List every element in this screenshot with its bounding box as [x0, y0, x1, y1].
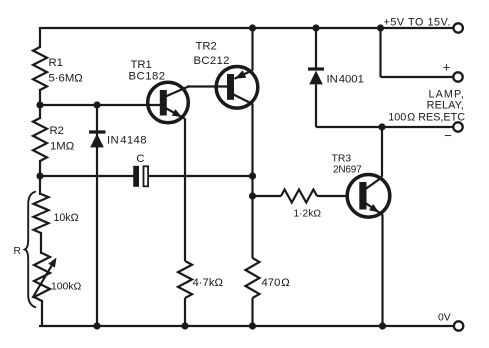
wire node-B horizontal through capacitor C (right): [149, 175, 254, 177]
svg-text:+: +: [443, 60, 451, 75]
wire bottom 0V rail: [39, 325, 454, 327]
wire 1.2k to TR3 base segment: [253, 195, 281, 197]
wire left branch vertical: R1 to R2 (node A): [39, 89, 41, 119]
terminal - load: [453, 122, 462, 131]
resistor R1 5.6M zigzag: [33, 47, 47, 90]
svg-text:4·7kΩ: 4·7kΩ: [193, 277, 223, 289]
svg-text:RELAY,: RELAY,: [427, 100, 464, 112]
wire TR1 emitter to 4.7k vertical: [184, 119, 186, 262]
capacitor C left plate (solid): [133, 166, 139, 187]
svg-text:BC212: BC212: [194, 55, 230, 67]
junction node B (R2 bottom / C / R top): [36, 172, 43, 179]
svg-text:C: C: [136, 153, 144, 165]
variable resistor 100k arrow shaft: [33, 263, 54, 299]
resistor 1.2k zigzag: [281, 190, 317, 203]
resistor R2 1M zigzag: [33, 118, 47, 161]
terminal 0V: [454, 321, 463, 330]
wire top +V rail: [40, 27, 453, 29]
wire TR2 emitter branch to top rail: [251, 28, 253, 71]
svg-text:TR2: TR2: [196, 41, 217, 53]
svg-text:TR3: TR3: [332, 154, 352, 165]
wire node-B horizontal through capacitor C (left): [40, 175, 134, 177]
wire 4.7k bottom to 0V rail: [184, 298, 186, 326]
wire left branch vertical: 10k to 100k: [40, 232, 42, 254]
junction top rail / load plus branch: [377, 24, 384, 31]
transistor TR2 base bar: [227, 74, 234, 100]
capacitor C right plate (hollow): [144, 166, 149, 186]
svg-text:TR1: TR1: [131, 59, 152, 71]
svg-text:1MΩ: 1MΩ: [50, 141, 74, 153]
diode IN4148 anode triangle: [90, 134, 104, 148]
wire TR3 collector vertical up: [381, 127, 383, 177]
diode IN4001 cathode bar: [308, 67, 324, 70]
junction 0V rail / TR3 emitter: [379, 322, 386, 329]
wire TR2 collector branch vertical: [251, 104, 253, 259]
junction 0V rail / 4.7k bottom: [181, 322, 188, 329]
transistor TR2 emitter diagonal: [235, 70, 253, 79]
svg-text:100kΩ: 100kΩ: [51, 282, 82, 293]
junction node A / IN4148 top: [93, 101, 100, 108]
resistor 4.7k zigzag: [178, 261, 192, 298]
transistor TR1 collector diagonal: [166, 87, 189, 97]
resistor 470R zigzag: [246, 258, 260, 298]
brace for pot group R: [25, 192, 36, 308]
junction TR2 collector / C right: [249, 172, 256, 179]
terminal + load: [453, 72, 462, 81]
svg-text:R1: R1: [49, 57, 63, 69]
junction TR2 collector / 1.2k / 470R: [249, 192, 256, 199]
wire to + terminal: [381, 76, 454, 78]
svg-text:2N697: 2N697: [333, 165, 362, 176]
transistor TR1 emitter arrowhead: [172, 109, 182, 117]
wire IN4148 branch vertical: [96, 105, 98, 326]
svg-text:IN 4001: IN 4001: [327, 74, 364, 86]
junction load minus / TR3 collector: [378, 123, 385, 130]
svg-text:0V: 0V: [438, 313, 451, 324]
wire left branch vertical: 100k to 0V rail: [41, 300, 43, 327]
svg-text:5·6MΩ: 5·6MΩ: [49, 73, 83, 85]
junction top rail / TR2 emitter branch: [249, 24, 256, 31]
junction 0V rail / IN4148 bottom: [93, 322, 100, 329]
svg-text:+5V TO 15V.: +5V TO 15V.: [384, 17, 451, 29]
transistor TR2 collector diagonal: [234, 95, 253, 105]
variable resistor 100k arrowhead: [48, 258, 56, 268]
svg-text:100 Ω RES,ETC: 100 Ω RES,ETC: [388, 112, 465, 124]
transistor TR3 collector diagonal: [366, 177, 383, 189]
transistor TR3 circle: [347, 175, 390, 218]
svg-text:R: R: [14, 246, 21, 257]
svg-text:−: −: [444, 128, 452, 143]
svg-text:IN 4148: IN 4148: [107, 135, 147, 147]
svg-text:470 Ω: 470 Ω: [262, 277, 290, 289]
svg-text:1·2kΩ: 1·2kΩ: [294, 209, 322, 220]
diode IN4001 anode triangle: [309, 71, 323, 85]
junction node A (R1/R2/TR1 base): [36, 101, 43, 108]
variable resistor 100k (part of R) zigzag: [34, 253, 50, 301]
svg-text:10kΩ: 10kΩ: [54, 212, 79, 224]
wire left branch vertical: top rail to R1: [39, 27, 41, 48]
transistor TR3 emitter arrowhead: [369, 204, 379, 212]
wire 470R bottom to 0V rail: [251, 298, 253, 326]
wire TR3 emitter vertical down to 0V: [381, 215, 383, 327]
diode IN4148 cathode bar: [89, 130, 106, 133]
wire node-A divider horizontal to TR1 base: [40, 104, 161, 106]
junction 0V rail / 470R bottom: [249, 322, 256, 329]
wire TR1 collector to TR2 base: [187, 85, 227, 87]
wire left branch vertical: node B to 10k: [39, 175, 41, 195]
wire IN4001 branch vertical top: [315, 28, 317, 68]
transistor TR3 base bar: [359, 182, 366, 210]
svg-text:BC182: BC182: [129, 71, 166, 83]
wire IN4001 anode down to load-minus wire: [315, 85, 317, 128]
wire load-plus branch down from rail: [379, 28, 381, 77]
junction top rail / IN4001: [312, 24, 319, 31]
transistor TR2 circle: [216, 67, 258, 109]
transistor TR1 emitter diagonal: [166, 108, 186, 119]
terminal +5V supply: [454, 23, 463, 32]
transistor TR1 base bar: [160, 90, 167, 116]
resistor 10k (part of R) zigzag: [34, 194, 49, 233]
wire left branch vertical: R2 to node B: [39, 160, 41, 177]
svg-text:R2: R2: [50, 125, 64, 137]
transistor TR1 circle: [148, 82, 189, 123]
wire 1.2k zigzag to TR3 base: [317, 195, 348, 197]
transistor TR3 emitter diagonal: [366, 203, 383, 215]
wire load-minus horizontal to - terminal: [316, 126, 453, 128]
transistor TR2 emitter arrowhead (pointing into bar): [235, 70, 246, 78]
